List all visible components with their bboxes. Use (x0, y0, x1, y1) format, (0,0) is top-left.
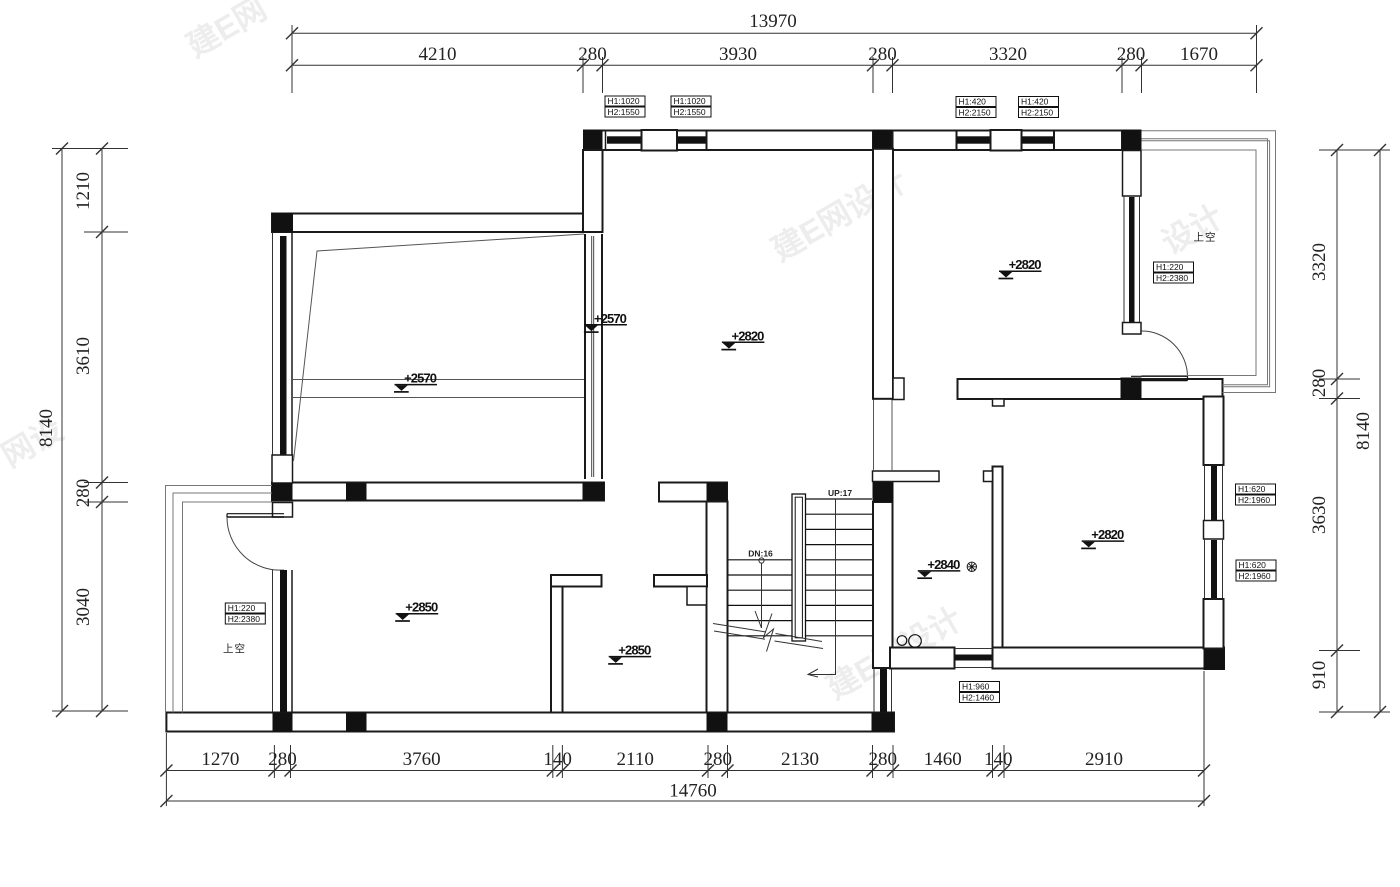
svg-text:DN:16: DN:16 (748, 549, 773, 559)
bottom wall band (166, 713, 894, 732)
bedroom left wall step (893, 378, 904, 400)
bathroom bottom wall left part (890, 648, 955, 669)
dimension top chain 4210/280/3930/280/3320/280/1670 (286, 44, 1263, 93)
wall stair-left vertical (707, 502, 728, 714)
elevation marker +2820 middle room (721, 328, 764, 349)
column below attic window right (583, 482, 605, 501)
dining stub wall (654, 575, 707, 587)
bedroom right window (1124, 196, 1140, 334)
column bedroom bottom (1121, 378, 1142, 401)
svg-text:3630: 3630 (1309, 496, 1330, 534)
column (346, 483, 367, 501)
label box window 620 lower (1236, 560, 1276, 581)
bathroom top stub wall (873, 471, 940, 482)
window below stair wall (874, 669, 892, 713)
svg-text:13970: 13970 (749, 11, 797, 32)
svg-text:3320: 3320 (1309, 243, 1330, 281)
window top W3 glass (957, 136, 991, 143)
window top W1 glass (606, 131, 642, 150)
label box right balcony (1154, 262, 1194, 283)
window top W4 glass (1022, 136, 1055, 143)
svg-text:H1:620: H1:620 (1238, 484, 1266, 494)
bedroom bottom wall (958, 379, 1223, 399)
dimension top overall 13970 (286, 11, 1263, 93)
svg-text:H1:1020: H1:1020 (674, 96, 706, 106)
window left wall of middle room (585, 234, 602, 479)
elevation marker +2570 middle room (584, 311, 627, 332)
left balcony door swing arc (227, 517, 284, 570)
svg-text:280: 280 (578, 44, 607, 65)
wall segment (893, 131, 957, 151)
svg-text:+2820: +2820 (1009, 257, 1042, 272)
svg-text:4210: 4210 (419, 44, 457, 65)
balcony door leaf (1131, 376, 1188, 380)
elevation marker +2570 attic (394, 371, 437, 392)
svg-text:H2:2380: H2:2380 (1156, 273, 1188, 283)
svg-text:280: 280 (868, 44, 897, 65)
svg-text:8140: 8140 (36, 409, 57, 447)
living room stub wall (551, 575, 602, 587)
stair center rail (792, 494, 806, 641)
column top C (1122, 130, 1142, 152)
elevation marker +2820 bedroom (999, 257, 1042, 278)
window end frame box (272, 455, 293, 483)
column left (272, 483, 293, 501)
svg-text:1270: 1270 (201, 749, 239, 770)
dimension bottom chain 1270/280/3760/140/2110/280/2130/280/1460/140/2910 (160, 671, 1210, 806)
svg-text:上空: 上空 (1194, 231, 1217, 244)
svg-text:1210: 1210 (73, 172, 94, 210)
svg-text:280: 280 (73, 479, 94, 508)
column (273, 713, 293, 732)
window top mullion frame (642, 130, 678, 151)
bedroom2 right wall lower band (1204, 599, 1224, 649)
bedroom right window frame lower (1123, 323, 1142, 335)
left balcony railing lines (166, 486, 273, 713)
bathroom right wall (993, 467, 1003, 649)
column (707, 483, 728, 503)
attic ceiling slope lines (294, 234, 585, 461)
column stair top right (873, 482, 894, 503)
label box top window 2 (671, 96, 711, 117)
left balcony door header wall (273, 503, 293, 518)
svg-text:2110: 2110 (617, 749, 654, 770)
svg-text:+2850: +2850 (618, 643, 651, 658)
column (346, 713, 367, 732)
svg-text:H2:1550: H2:1550 (608, 107, 640, 117)
svg-text:+2570: +2570 (594, 311, 627, 326)
dining wall notch box (687, 587, 707, 606)
svg-text:280: 280 (1309, 369, 1330, 398)
svg-text:3040: 3040 (73, 588, 94, 626)
svg-text:2130: 2130 (781, 749, 819, 770)
svg-text:H2:1460: H2:1460 (962, 693, 994, 703)
svg-text:910: 910 (1309, 661, 1330, 690)
svg-text:H1:1020: H1:1020 (608, 96, 640, 106)
balcony door swing arc (1142, 331, 1188, 377)
svg-text:3760: 3760 (403, 749, 441, 770)
wall segment top middle (707, 131, 874, 151)
svg-text:H1:220: H1:220 (1156, 262, 1184, 272)
window top W2 glass (678, 136, 707, 143)
dimension right chain 3320/280/3630/910 (1309, 144, 1360, 718)
svg-text:140: 140 (543, 749, 572, 770)
dimension left chain 1210/3610/280/3040 (52, 143, 128, 718)
svg-text:3930: 3930 (719, 44, 757, 65)
stair UP arrow (808, 499, 836, 677)
bedroom2 window mid frame (1204, 521, 1224, 540)
faint watermark smudges (0, 0, 1229, 706)
stairwell right wall (873, 502, 893, 668)
left balcony door leaf (227, 514, 284, 517)
svg-text:H2:1960: H2:1960 (1238, 495, 1270, 505)
column bottom right (1204, 648, 1226, 671)
svg-text:8140: 8140 (1353, 412, 1374, 450)
bedroom left wall (873, 149, 893, 399)
label box left balcony (225, 603, 265, 624)
stair DN arrow (755, 558, 764, 628)
svg-text:+2840: +2840 (927, 557, 960, 572)
floor drain symbol (967, 562, 976, 571)
bathroom wall tab (984, 471, 993, 482)
elevation marker +2820 bedroom2 (1081, 527, 1124, 548)
svg-text:280: 280 (869, 749, 898, 770)
svg-text:280: 280 (1117, 44, 1146, 65)
stair lower flight treads (728, 560, 793, 636)
top-left room top wall (272, 214, 583, 233)
svg-text:+2820: +2820 (1091, 527, 1124, 542)
bathroom washbasin circles (897, 636, 907, 646)
stair upper flight treads (806, 499, 873, 636)
column (872, 713, 895, 732)
top wall band (583, 131, 1142, 151)
svg-text:H1:620: H1:620 (1239, 560, 1267, 570)
bedroom2 right window 1 (1205, 465, 1223, 521)
svg-text:1670: 1670 (1180, 44, 1218, 65)
svg-text:280: 280 (704, 749, 733, 770)
middle room bottom wall segment (659, 483, 727, 502)
column top-left room (272, 213, 293, 233)
wall segment (1054, 131, 1122, 151)
svg-text:14760: 14760 (669, 781, 717, 802)
wall step vertical left of middle room (583, 150, 603, 232)
svg-text:H1:420: H1:420 (1021, 97, 1049, 107)
svg-text:+2850: +2850 (405, 600, 438, 615)
elevation marker +2840 bathroom (917, 557, 960, 578)
svg-text:H1:960: H1:960 (962, 682, 990, 692)
dimension right overall 8140 (1353, 144, 1390, 718)
right balcony railing lines (1142, 131, 1276, 393)
label box window 620 upper (1236, 484, 1276, 505)
svg-text:3320: 3320 (989, 44, 1027, 65)
elevation marker +2850 living (395, 600, 438, 621)
column top-left (583, 130, 603, 151)
elevation marker +2850 dining (608, 643, 651, 664)
svg-text:+2570: +2570 (404, 371, 437, 386)
label box top window 3 (956, 97, 996, 118)
bedroom2 right wall upper band (1204, 397, 1224, 466)
bedroom right wall frame upper (1123, 151, 1142, 197)
bathroom bottom window (955, 649, 994, 668)
svg-text:上空: 上空 (223, 642, 246, 655)
svg-text:H1:420: H1:420 (959, 97, 987, 107)
svg-text:140: 140 (984, 749, 1013, 770)
stair break line (713, 614, 823, 652)
bedroom2 right window 2 (1205, 539, 1223, 599)
window top mullion frame 2 (991, 130, 1022, 151)
svg-text:H2:1960: H2:1960 (1239, 571, 1271, 581)
window left wall of attic room (273, 233, 293, 456)
svg-text:H2:1550: H2:1550 (674, 107, 706, 117)
svg-text:UP:17: UP:17 (828, 488, 852, 498)
svg-text:H1:220: H1:220 (228, 603, 256, 613)
attic level lines (293, 379, 584, 381)
svg-text:3610: 3610 (73, 337, 94, 375)
svg-text:1460: 1460 (924, 749, 962, 770)
window below door left wall (273, 570, 293, 712)
column (707, 713, 728, 732)
svg-text:280: 280 (268, 749, 297, 770)
label box top window 4 (1019, 97, 1059, 118)
svg-text:H2:2380: H2:2380 (228, 614, 260, 624)
living room vertical wall 140 (551, 587, 563, 713)
bottom wall right section (993, 648, 1225, 669)
label box bathroom window (960, 682, 1000, 703)
svg-text:H2:2150: H2:2150 (1021, 108, 1053, 118)
door stop tab below wall (993, 399, 1005, 406)
column top B (873, 130, 893, 152)
dimension left overall 8140 (36, 143, 68, 718)
dimension bottom overall 14760 (160, 781, 1210, 808)
attic room bottom wall (272, 483, 604, 501)
hallway opening lines (874, 400, 893, 472)
svg-text:+2820: +2820 (732, 328, 765, 343)
svg-text:H2:2150: H2:2150 (959, 108, 991, 118)
label box top window 1 (605, 96, 645, 117)
svg-text:2910: 2910 (1085, 749, 1123, 770)
